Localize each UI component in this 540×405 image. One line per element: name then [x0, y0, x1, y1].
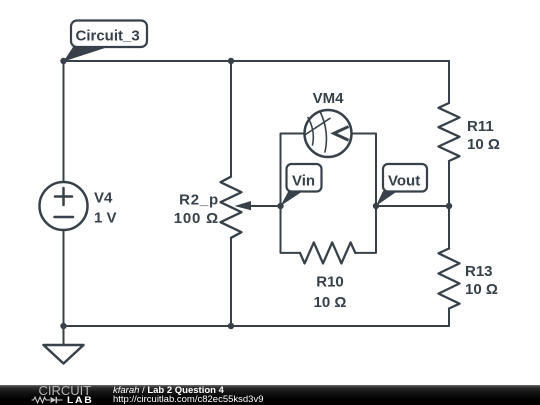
wire ground stub — [63, 326, 65, 345]
wire R11 bottom — [448, 161, 450, 206]
node A top-left junction — [60, 58, 66, 64]
label R11 value — [467, 118, 500, 153]
node ground junction — [60, 323, 66, 329]
node Vout junction — [373, 203, 379, 209]
CircuitLab logo word — [39, 384, 92, 397]
footer text — [113, 386, 264, 404]
footer bar — [0, 385, 540, 405]
wire VM4 right — [352, 134, 377, 207]
callout Vin — [281, 164, 322, 206]
resistor R13 — [439, 249, 460, 309]
wire R11 top — [448, 61, 450, 103]
CircuitLab logo LAB — [67, 396, 93, 404]
wire R10 left — [281, 206, 301, 253]
svg-text:Vout: Vout — [388, 172, 420, 189]
wire top rail — [64, 60, 450, 62]
ground — [44, 345, 84, 364]
label R13 value — [465, 263, 498, 298]
svg-text:R10: R10 — [316, 274, 344, 291]
node B R2_p top junction — [228, 58, 234, 64]
svg-text:Vin: Vin — [292, 172, 315, 189]
wire R2_p bottom — [230, 238, 232, 326]
wire Vout to R11 node — [376, 205, 449, 207]
potentiometer R2_p — [221, 177, 242, 238]
svg-text:10 Ω: 10 Ω — [467, 136, 500, 153]
callout Circuit_3 — [64, 21, 148, 62]
label R2_p value — [174, 192, 219, 227]
voltmeter VM4 — [305, 110, 352, 157]
wire bottom rail — [64, 325, 450, 327]
label R10 value — [314, 274, 347, 312]
svg-text:10 Ω: 10 Ω — [465, 281, 498, 298]
resistor R11 — [439, 103, 460, 161]
node R11-R13 junction — [446, 203, 452, 209]
svg-text:100 Ω: 100 Ω — [174, 210, 219, 227]
wire R13 top — [448, 206, 450, 249]
node R2_p bottom junction — [228, 323, 234, 329]
callout Vout — [376, 164, 427, 206]
voltage source V4 — [40, 182, 88, 230]
CircuitLab logo squiggle + diode — [31, 396, 65, 404]
svg-text:R11: R11 — [467, 118, 494, 135]
wire R10 right — [355, 206, 376, 253]
wire VM4 left — [281, 134, 305, 207]
wire R2_p top — [230, 61, 232, 177]
potentiometer R2_p wiper arrow — [235, 201, 281, 210]
svg-text:R2_p: R2_p — [179, 192, 219, 209]
svg-text:VM4: VM4 — [313, 90, 345, 107]
svg-text:R13: R13 — [465, 263, 493, 280]
wire left rail lower — [63, 230, 65, 326]
node Vin junction — [277, 203, 283, 209]
svg-text:V4: V4 — [94, 190, 113, 207]
label V4 value — [94, 190, 117, 227]
label VM4 — [313, 90, 345, 107]
wire left rail upper — [63, 61, 65, 182]
svg-text:Circuit_3: Circuit_3 — [76, 28, 140, 45]
svg-text:10 Ω: 10 Ω — [314, 294, 347, 311]
wire R13 bottom — [448, 309, 450, 327]
resistor R10 — [300, 242, 355, 263]
svg-text:1 V: 1 V — [94, 210, 117, 227]
